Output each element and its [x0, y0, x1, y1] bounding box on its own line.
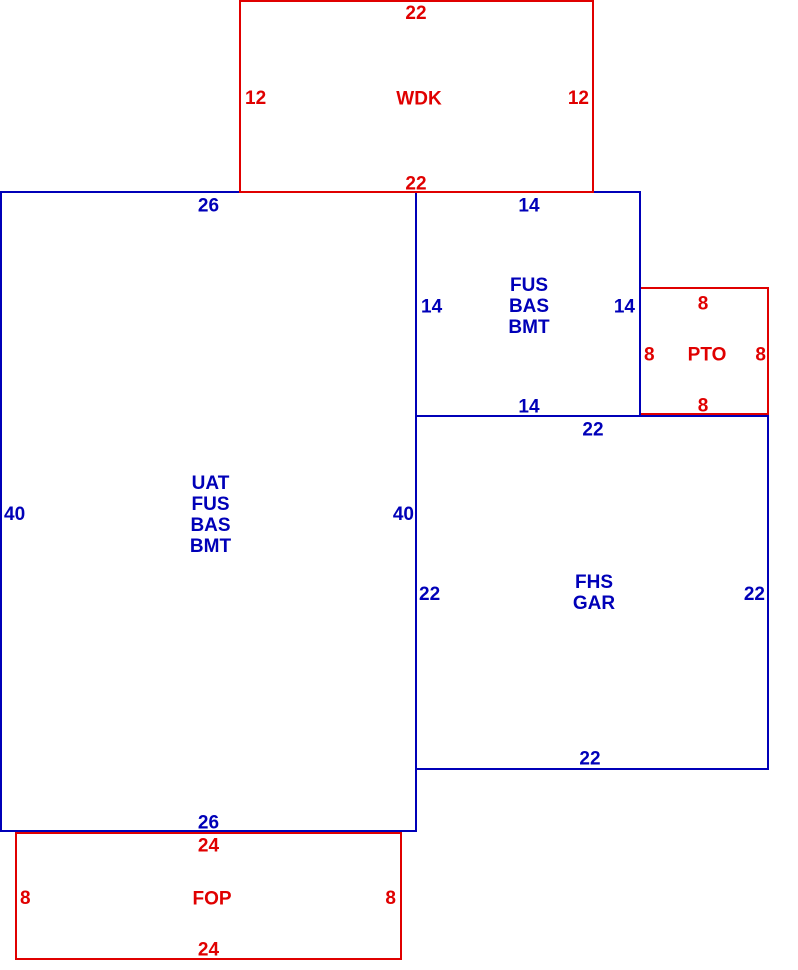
room FOP outline (red)	[16, 833, 401, 959]
svg-text:22: 22	[405, 3, 426, 24]
svg-text:14: 14	[518, 397, 540, 418]
svg-text:BAS: BAS	[509, 296, 549, 317]
svg-text:PTO: PTO	[688, 345, 727, 366]
svg-text:8: 8	[385, 888, 396, 909]
svg-text:12: 12	[568, 88, 589, 109]
svg-text:22: 22	[419, 584, 440, 605]
svg-text:24: 24	[198, 836, 220, 857]
svg-text:26: 26	[198, 196, 219, 217]
svg-text:22: 22	[582, 420, 603, 441]
svg-text:WDK: WDK	[396, 89, 442, 110]
svg-text:14: 14	[614, 297, 636, 318]
svg-text:24: 24	[198, 940, 220, 961]
svg-text:8: 8	[20, 888, 31, 909]
svg-text:26: 26	[198, 813, 219, 834]
svg-text:22: 22	[579, 749, 600, 770]
svg-text:8: 8	[755, 345, 766, 366]
room WDK outline (red)	[240, 1, 593, 192]
svg-text:BMT: BMT	[190, 536, 232, 557]
svg-text:40: 40	[4, 504, 25, 525]
svg-text:40: 40	[393, 504, 414, 525]
svg-text:22: 22	[405, 174, 426, 195]
svg-text:BAS: BAS	[190, 515, 230, 536]
svg-text:FOP: FOP	[192, 889, 231, 910]
svg-text:FHS: FHS	[575, 572, 613, 593]
room UAT/FUS/BAS/BMT outline (blue)	[1, 192, 416, 831]
svg-text:UAT: UAT	[192, 473, 230, 494]
room PTO outline (red, drawn first so shared left wall shows blue)	[640, 288, 768, 414]
room FUS/BAS/BMT outline (blue)	[416, 192, 640, 416]
svg-text:22: 22	[744, 584, 765, 605]
svg-text:FUS: FUS	[192, 494, 230, 515]
svg-text:14: 14	[518, 196, 540, 217]
svg-text:14: 14	[421, 297, 443, 318]
svg-text:8: 8	[698, 396, 709, 417]
svg-text:FUS: FUS	[510, 275, 548, 296]
svg-text:GAR: GAR	[573, 593, 616, 614]
svg-text:12: 12	[245, 88, 266, 109]
svg-text:BMT: BMT	[508, 317, 550, 338]
svg-text:8: 8	[698, 294, 709, 315]
room FHS/GAR outline (blue)	[416, 416, 768, 769]
svg-text:8: 8	[644, 345, 655, 366]
